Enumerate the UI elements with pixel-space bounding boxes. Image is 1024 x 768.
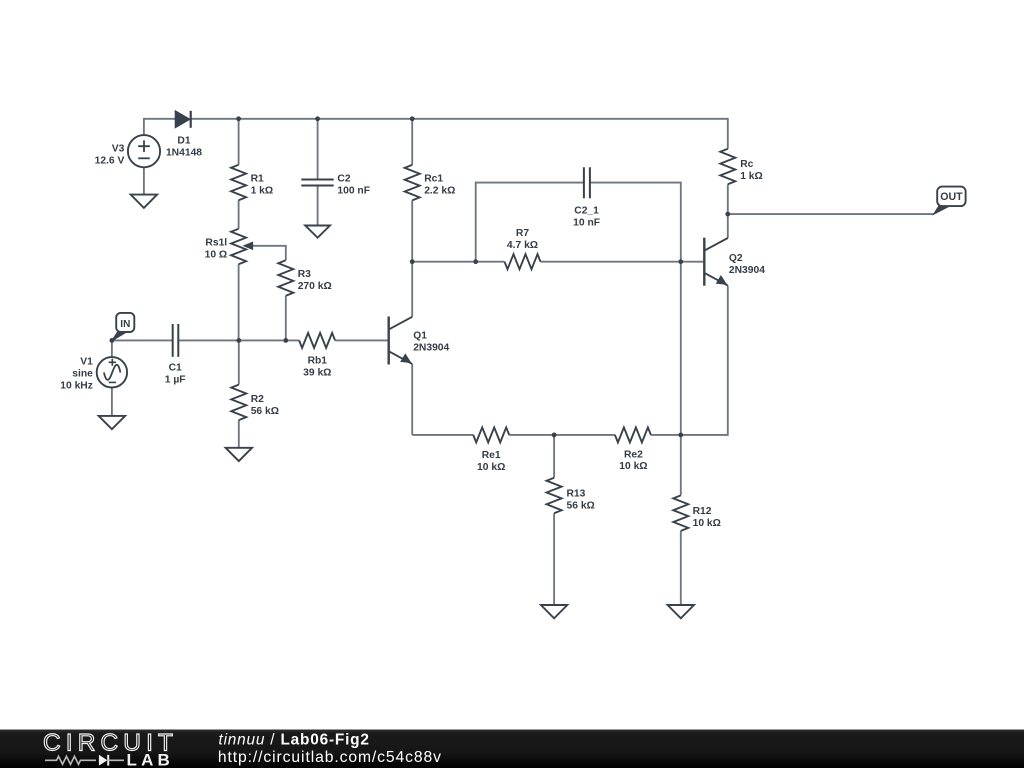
wire: Rc1 bottom to Q1 collector (411, 200, 413, 316)
svg-text:V3: V3 (112, 144, 125, 155)
svg-text:R12: R12 (693, 506, 712, 517)
node OUT flag (934, 206, 950, 214)
voltage source V1 (sine) (97, 357, 127, 387)
svg-text:OUT: OUT (940, 191, 963, 203)
wire: C2_1 right plate to vertical feedback line (590, 183, 681, 496)
svg-text:1 kΩ: 1 kΩ (740, 171, 763, 182)
wire: R13 top from bottom rail (553, 435, 555, 478)
svg-text:tinnuu / Lab06-Fig2: tinnuu / Lab06-Fig2 (219, 731, 370, 748)
wire: C2 bottom plate to ground (317, 186, 319, 226)
resistor R7 (505, 254, 541, 269)
ground (V1) (99, 416, 125, 429)
resistor R2 (231, 385, 246, 421)
svg-text:http://circuitlab.com/c54c88v: http://circuitlab.com/c54c88v (218, 749, 442, 766)
junction rail/R12 node (678, 433, 683, 438)
resistor Re1 (473, 427, 509, 442)
ground (R13) (541, 605, 567, 618)
wire: V3 bottom to ground (143, 167, 145, 194)
svg-text:sine: sine (72, 369, 93, 380)
svg-text:10 kΩ: 10 kΩ (693, 518, 721, 529)
svg-text:Rc: Rc (740, 159, 753, 170)
svg-text:Re1: Re1 (482, 450, 501, 461)
transistor Q1 (388, 317, 390, 365)
wire: input line down to R2 top (238, 340, 240, 384)
svg-text:2N3904: 2N3904 (729, 265, 765, 276)
junction rail/C2 (315, 116, 320, 121)
wire: R12 bottom to ground (680, 531, 682, 605)
svg-text:IN: IN (120, 319, 130, 330)
svg-text:C2_1: C2_1 (574, 205, 599, 216)
ground (R2) (226, 448, 252, 461)
transistor Q2 (703, 238, 705, 286)
svg-text:270 kΩ: 270 kΩ (298, 281, 332, 292)
svg-text:39 kΩ: 39 kΩ (303, 367, 331, 378)
svg-text:Re2: Re2 (624, 449, 643, 460)
svg-text:1 kΩ: 1 kΩ (251, 185, 274, 196)
wire: top supply rail from D1 cathode to Rc column (191, 119, 728, 149)
wire: V1 bottom to ground (111, 387, 113, 416)
wire: V3 top to D1 anode (144, 119, 175, 135)
junction Q2 base node (678, 259, 683, 264)
resistor R1 (231, 165, 246, 201)
logo mini diode (99, 755, 107, 766)
junction rail/R13 node (552, 433, 557, 438)
resistor R12 (673, 495, 688, 531)
wire: C2_1 left branch up from R7 line (476, 183, 584, 262)
resistor Rc1 (405, 165, 420, 201)
svg-text:C1: C1 (169, 363, 182, 374)
resistor R3 (278, 260, 293, 296)
svg-text:10 kΩ: 10 kΩ (619, 461, 647, 472)
svg-text:12.6 V: 12.6 V (95, 156, 125, 167)
svg-text:R13: R13 (567, 489, 586, 500)
svg-text:Rs1l: Rs1l (205, 237, 227, 248)
svg-text:10 kΩ: 10 kΩ (477, 462, 505, 473)
wire: Q1 emitter down to bottom rail (411, 364, 413, 435)
capacitor C2 (301, 180, 333, 186)
junction OUT node (725, 212, 730, 217)
capacitor C1 (173, 324, 179, 357)
wire: Rs1l wiper to R3 top (252, 246, 286, 260)
wire: input line from IN node to C1 (112, 339, 173, 341)
svg-text:4.7 kΩ: 4.7 kΩ (507, 240, 538, 251)
svg-text:C2: C2 (337, 174, 350, 185)
wire: R2 bottom to ground (238, 420, 240, 448)
svg-text:Rc1: Rc1 (424, 174, 443, 185)
resistor R13 (547, 478, 562, 514)
svg-text:Rb1: Rb1 (308, 356, 328, 367)
svg-text:56 kΩ: 56 kΩ (251, 406, 279, 417)
ground (V3) (131, 195, 157, 208)
wire: Re2 right to Q2 emitter column (651, 286, 728, 435)
svg-text:D1: D1 (177, 136, 190, 147)
wire: R7 right to Q2 base (541, 261, 704, 263)
svg-text:2N3904: 2N3904 (413, 343, 449, 354)
svg-text:R3: R3 (298, 269, 311, 280)
logo mini resistor (45, 756, 96, 764)
wire: Rc bottom to Q2 collector (727, 184, 729, 238)
svg-text:1 µF: 1 µF (165, 375, 186, 386)
resistor Re2 (615, 427, 651, 442)
junction input/R3 node (283, 338, 288, 343)
wire: OUT line from Q2 collector node (728, 213, 934, 215)
wire: rail to Rc1 top (411, 119, 413, 165)
junction input/R2 node (236, 338, 241, 343)
wire: rail to R1 top (238, 119, 240, 165)
svg-text:R2: R2 (251, 394, 264, 405)
wire: Rs1l bottom to input line (238, 264, 240, 340)
potentiometer Rs1l (231, 229, 246, 265)
ground (R12) (668, 605, 694, 618)
wire: R1 bottom to Rs1l top (238, 200, 240, 229)
diode D1 (175, 111, 190, 128)
wire: bottom rail to Re1 (412, 434, 473, 436)
junction Rc1/R7 node (410, 259, 415, 264)
capacitor C2_1 (584, 167, 590, 198)
svg-text:10 Ω: 10 Ω (205, 249, 228, 260)
svg-text:56 kΩ: 56 kΩ (567, 501, 595, 512)
wire: Re1 right to Re2 left (509, 434, 615, 436)
svg-text:10 kHz: 10 kHz (60, 381, 93, 392)
voltage source V3 (128, 135, 160, 167)
wire: R3 bottom to input line (285, 296, 287, 341)
wire: C1 right plate to Rb1 (178, 339, 299, 341)
svg-text:100 nF: 100 nF (337, 186, 370, 197)
node IN flag (112, 332, 126, 341)
svg-text:R1: R1 (251, 173, 264, 184)
svg-text:LAB: LAB (127, 751, 175, 768)
junction IN node (110, 338, 115, 343)
junction C2_1 left node (473, 259, 478, 264)
ground (C2) (305, 226, 330, 238)
svg-text:1N4148: 1N4148 (166, 147, 202, 158)
svg-text:V1: V1 (80, 356, 93, 367)
svg-text:2.2 kΩ: 2.2 kΩ (424, 186, 455, 197)
junction rail/Rc1 (410, 116, 415, 121)
wire: IN node down to V1 top (111, 340, 113, 357)
junction rail/R1 (236, 116, 241, 121)
resistor Rb1 (299, 333, 335, 348)
wire: rail to C2 top plate (317, 119, 319, 180)
svg-text:10 nF: 10 nF (573, 217, 600, 228)
wire: R7 line, node A to R7 left (412, 261, 504, 263)
svg-text:Q2: Q2 (729, 253, 743, 264)
resistor Rc (720, 149, 735, 185)
svg-text:Q1: Q1 (413, 330, 427, 341)
wire: Rb1 right to Q1 base (335, 339, 388, 341)
svg-text:R7: R7 (516, 228, 529, 239)
wire: R13 bottom to ground (553, 513, 555, 605)
